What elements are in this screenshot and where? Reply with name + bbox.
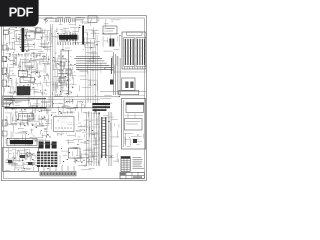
thick horizontal bus line B <box>5 107 47 109</box>
wire texture gap column upper <box>41 27 52 50</box>
pin ticks IC U1 <box>20 30 26 50</box>
light pocket behind box B-center <box>52 114 76 133</box>
jack icon JP2 <box>45 142 50 149</box>
PDF badge <box>0 0 39 27</box>
M2 mid sub-box <box>124 119 142 130</box>
component row below U4 <box>58 42 78 45</box>
wire texture right-center <box>101 56 117 74</box>
long vertical wires x50-54 <box>51 24 56 107</box>
bottom-left module box <box>3 147 39 171</box>
connector P3 left edge <box>2 68 7 75</box>
connector P1 box left edge <box>3 30 8 34</box>
connector box top-right <box>103 26 117 34</box>
audio IC dark bar <box>10 140 33 144</box>
horizontal bus lines to right <box>76 57 113 70</box>
component chain V2 <box>68 50 70 95</box>
wire texture right of ladder <box>100 95 120 117</box>
long horizontal net line y96.8 <box>4 96 120 98</box>
component chain V1 <box>60 50 62 95</box>
connector P5 left edge <box>2 131 7 136</box>
capacitor bank row top <box>56 19 75 23</box>
wire texture left-lower block <box>5 96 50 144</box>
wire texture audio bar area <box>6 138 36 145</box>
title block table <box>120 172 144 179</box>
speaker figures box <box>122 78 135 91</box>
connector P2a left edge <box>2 45 7 50</box>
wire texture top-right band <box>104 19 121 29</box>
hline right y91.5 <box>119 95 145 97</box>
CRT module M2 box <box>122 98 146 149</box>
small parts row y124 <box>8 123 40 125</box>
box B-center outline <box>54 117 75 132</box>
pin ticks U4 <box>60 33 77 41</box>
wire texture top band <box>45 17 98 26</box>
connector P4 left edge <box>2 120 7 126</box>
wire texture center-bottom block <box>55 120 99 146</box>
horizontal bus line A <box>4 98 46 100</box>
wire texture bus area <box>78 52 99 74</box>
IC U4 horizontal dark bar <box>59 35 78 40</box>
M1 winding bars right <box>137 39 145 65</box>
wire texture center column <box>52 53 76 97</box>
connector P3a left edge <box>2 80 7 87</box>
wire texture beside ladder <box>108 120 119 147</box>
M2 interior wires upper <box>124 100 143 147</box>
wire texture bottom-left module <box>5 148 37 171</box>
tiny label dashes top band <box>57 17 85 19</box>
M1 winding group right outline <box>136 38 146 67</box>
transformer T1 dark blob <box>110 39 112 47</box>
wire texture center-lower block <box>51 97 99 119</box>
box U3 <box>36 28 41 33</box>
svg-text:PDF: PDF <box>9 5 34 20</box>
wire texture gap column middle <box>42 56 51 95</box>
wire texture center-right lower band <box>77 112 100 170</box>
M2 top sub-box <box>126 103 144 113</box>
wire texture center low-mid <box>78 76 98 97</box>
schematic inner border frame <box>4 18 145 179</box>
flat label box right <box>119 90 139 94</box>
resistor stack right <box>111 58 113 74</box>
M1 winding group left outline <box>124 38 135 67</box>
connector J-top box <box>88 16 97 23</box>
wire texture center-top block <box>51 27 100 52</box>
small dark parts bottom-left <box>8 160 12 163</box>
small boxes center <box>60 62 65 66</box>
connector pin table <box>121 157 130 172</box>
M1 winding bars left <box>125 39 134 65</box>
M1 label box <box>127 32 143 35</box>
M1 bottom parts ticks <box>125 67 143 69</box>
long horizontal net line y99 <box>4 98 100 100</box>
wire texture gap column lower <box>41 100 52 146</box>
long vertical wires beside ladder <box>86 112 112 166</box>
power module M1 box <box>122 32 146 69</box>
box U6 <box>20 78 35 83</box>
jack icon JP1 <box>39 142 44 149</box>
IC U1 vertical DIP dark bar <box>22 28 25 52</box>
wire texture left-middle block <box>5 53 49 96</box>
wire texture bottom-center <box>60 147 99 167</box>
component specks left half <box>5 29 76 169</box>
IC U-top vertical bar <box>82 26 84 45</box>
wire texture feed to module M1 <box>101 33 120 51</box>
M2 bottom parts <box>124 133 144 146</box>
box CN2 <box>69 148 81 158</box>
M1 internal hwires <box>123 40 145 64</box>
legend strip cells <box>40 171 76 176</box>
vertical ladder connector CN-L <box>102 117 106 158</box>
box U2 <box>27 32 36 39</box>
svg-text:+5: +5 <box>43 18 48 23</box>
box U5 <box>19 71 28 77</box>
vertical drop wires right-center <box>114 52 121 95</box>
wire texture bottom right-center <box>101 153 118 163</box>
hline below M1 y72 <box>113 71 146 73</box>
schematic outer border frame <box>1 16 146 181</box>
box B-center inner ticks <box>56 127 71 129</box>
pin matrix grid <box>37 152 57 168</box>
audio module box <box>7 139 37 146</box>
jack icon JP3 <box>52 142 57 149</box>
diode row D-row <box>10 54 40 57</box>
connector list boxes left edge <box>2 96 13 99</box>
connector P2 left edge <box>2 57 7 62</box>
IC U7 horizontal dark bars cluster <box>93 103 111 105</box>
box T801 <box>19 114 34 121</box>
wire texture left-top block <box>5 27 50 51</box>
sub-board SB1 dark block <box>17 87 30 96</box>
long vertical wires x85-97 <box>86 44 98 103</box>
legend text block <box>133 158 145 169</box>
wires dropping to legend strip <box>44 166 74 171</box>
